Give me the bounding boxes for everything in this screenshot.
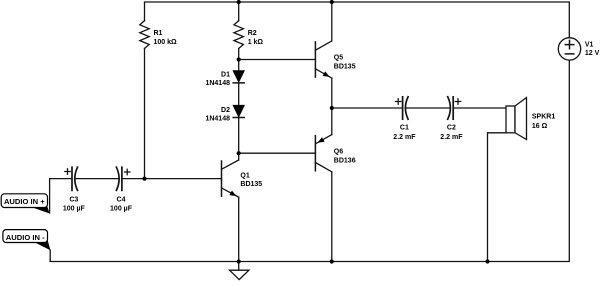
svg-text:100 kΩ: 100 kΩ	[154, 39, 178, 46]
svg-text:2.2 mF: 2.2 mF	[440, 134, 463, 141]
svg-text:1N4148: 1N4148	[205, 80, 230, 87]
svg-text:1N4148: 1N4148	[205, 116, 230, 123]
svg-text:Q6: Q6	[334, 148, 343, 155]
svg-text:Q5: Q5	[334, 54, 343, 61]
svg-text:R1: R1	[154, 30, 163, 37]
svg-text:BD135: BD135	[240, 181, 262, 188]
svg-text:BD136: BD136	[334, 157, 356, 164]
svg-text:2.2 mF: 2.2 mF	[393, 134, 416, 141]
svg-text:C3: C3	[69, 196, 78, 203]
svg-text:C2: C2	[447, 125, 456, 132]
svg-text:D1: D1	[221, 72, 230, 79]
svg-text:Q1: Q1	[240, 172, 249, 179]
svg-text:V1: V1	[585, 41, 594, 48]
svg-text:R2: R2	[248, 30, 257, 37]
svg-text:SPKR1: SPKR1	[532, 114, 555, 121]
svg-text:AUDIO IN +: AUDIO IN +	[4, 197, 45, 206]
svg-text:100 µF: 100 µF	[110, 205, 133, 212]
svg-text:12 V: 12 V	[585, 50, 600, 57]
svg-text:C4: C4	[117, 196, 126, 203]
svg-text:BD135: BD135	[334, 63, 356, 70]
svg-text:AUDIO IN -: AUDIO IN -	[6, 233, 45, 242]
svg-text:100 µF: 100 µF	[63, 205, 86, 212]
svg-text:D2: D2	[221, 107, 230, 114]
svg-text:16 Ω: 16 Ω	[532, 123, 548, 130]
svg-text:C1: C1	[400, 125, 409, 132]
svg-text:1 kΩ: 1 kΩ	[248, 39, 264, 46]
